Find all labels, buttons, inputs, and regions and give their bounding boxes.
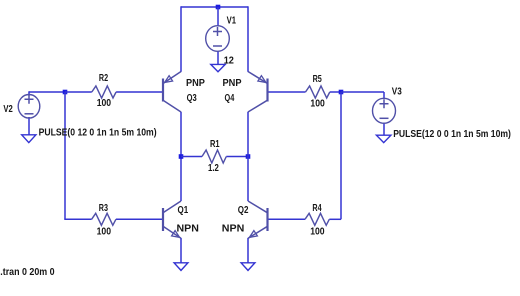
value 1.2 of R1 — [208, 163, 219, 174]
wire node A column — [64, 92, 66, 219]
svg-text:100: 100 — [310, 227, 325, 238]
value 100 of R5 — [310, 99, 325, 110]
wire node A column to R3 — [64, 218, 91, 220]
node A junction — [63, 90, 68, 95]
svg-text:R1: R1 — [210, 139, 220, 150]
label V1 — [227, 16, 237, 27]
svg-text:Q2: Q2 — [238, 205, 249, 216]
label NPN of Q1 — [177, 224, 199, 235]
node B junction — [339, 90, 344, 95]
value PULSE of V2 — [39, 128, 157, 139]
svg-text:.tran 0 20m 0: .tran 0 20m 0 — [0, 267, 55, 278]
value PULSE of V3 — [393, 129, 511, 140]
ground under V1 — [211, 64, 225, 71]
ground under Q2 emitter — [241, 263, 255, 271]
transistor Q3 — [163, 72, 181, 113]
node R1 left junction — [179, 154, 184, 159]
node R1 right junction — [246, 154, 251, 159]
svg-text:NPN: NPN — [222, 224, 245, 235]
label R2 — [99, 73, 108, 84]
svg-text:PULSE(12 0 0 1n 1n 5m 10m): PULSE(12 0 0 1n 1n 5m 10m) — [393, 129, 511, 140]
wire Q4 base to R5 — [268, 91, 306, 93]
label Q4 — [225, 93, 235, 104]
wire Q3 collector to R1 left — [180, 112, 182, 157]
svg-text:NPN: NPN — [177, 224, 199, 235]
wire R5 to node B — [330, 91, 341, 93]
resistor R4 — [305, 213, 329, 225]
label Q2 — [238, 205, 249, 216]
ground under V2 — [22, 135, 36, 143]
svg-text:Q4: Q4 — [225, 93, 235, 104]
label R4 — [312, 203, 321, 214]
wire R1 right lead — [226, 156, 248, 158]
wire node B column to R4 — [329, 218, 341, 220]
svg-text:Q1: Q1 — [178, 205, 189, 216]
wire R2 to Q3 base — [116, 91, 163, 93]
svg-text:100: 100 — [97, 98, 112, 109]
value 100 of R3 — [97, 227, 112, 238]
label NPN of Q2 — [222, 224, 245, 235]
label PNP of Q4 — [223, 78, 242, 89]
wire V2 bottom stub — [28, 117, 30, 135]
wire V3 top stub — [383, 92, 385, 99]
svg-text:V3: V3 — [392, 87, 402, 98]
svg-text:1.2: 1.2 — [208, 163, 219, 174]
wire Q1 emitter stub — [180, 238, 182, 263]
wire R1 left to Q1 collector — [180, 156, 182, 201]
wire node B to V3 — [341, 91, 384, 93]
label V3 — [392, 87, 402, 98]
voltage source V2 — [18, 95, 40, 119]
value 12 of V1 — [224, 55, 234, 66]
wire node A to R2 — [65, 91, 92, 93]
wire R3 to Q1 base — [116, 218, 163, 220]
svg-text:Q3: Q3 — [187, 93, 197, 104]
svg-text:R4: R4 — [312, 203, 321, 214]
transistor Q4 — [248, 72, 268, 113]
svg-text:12: 12 — [224, 55, 234, 66]
label Q1 — [178, 205, 189, 216]
wire V3 bottom stub — [383, 123, 385, 136]
label R1 — [210, 139, 220, 150]
svg-text:100: 100 — [97, 227, 112, 238]
ground under V3 — [376, 135, 391, 142]
node top-rail junction to V1 — [216, 5, 221, 10]
ground under Q1 emitter — [174, 263, 188, 271]
label PNP of Q3 — [186, 78, 205, 89]
wire R1 left lead — [181, 156, 202, 158]
wire V1 bottom stub — [217, 51, 219, 65]
svg-text:R3: R3 — [99, 203, 108, 214]
wire Q4 collector to R1 right — [247, 112, 249, 157]
value 100 of R2 — [97, 98, 112, 109]
resistor R2 — [92, 86, 116, 98]
value 100 of R4 — [310, 227, 325, 238]
transistor Q1 — [163, 201, 181, 238]
transistor Q2 — [248, 201, 268, 238]
label Q3 — [187, 93, 197, 104]
wire node B column — [340, 92, 342, 219]
svg-text:V2: V2 — [3, 104, 13, 115]
wire top rail V+ — [181, 6, 248, 8]
wire V2 to node A — [29, 91, 66, 93]
resistor R1 — [202, 150, 226, 163]
svg-text:R2: R2 — [99, 73, 108, 84]
resistor R5 — [306, 86, 330, 98]
spice directive .tran — [0, 267, 55, 278]
svg-text:PULSE(0 12 0 1n 1n 5m 10m): PULSE(0 12 0 1n 1n 5m 10m) — [39, 128, 157, 139]
svg-text:PNP: PNP — [186, 78, 205, 89]
wire V2 top stub — [28, 91, 30, 95]
svg-text:100: 100 — [310, 99, 325, 110]
resistor R3 — [92, 213, 116, 225]
svg-text:PNP: PNP — [223, 78, 242, 89]
wire V1 top stub — [217, 7, 219, 27]
svg-text:V1: V1 — [227, 16, 237, 27]
voltage source V3 — [373, 98, 396, 123]
label R3 — [99, 203, 108, 214]
label V2 — [3, 104, 13, 115]
wire Q3 emitter column — [180, 6, 182, 72]
svg-text:R5: R5 — [313, 74, 322, 85]
wire R1 right to Q2 collector — [247, 156, 249, 201]
label R5 — [313, 74, 322, 85]
wire R4 to Q2 base — [268, 218, 306, 220]
voltage source V1 — [206, 26, 230, 52]
wire Q4 emitter column — [247, 6, 249, 72]
wire Q2 emitter stub — [247, 238, 249, 263]
